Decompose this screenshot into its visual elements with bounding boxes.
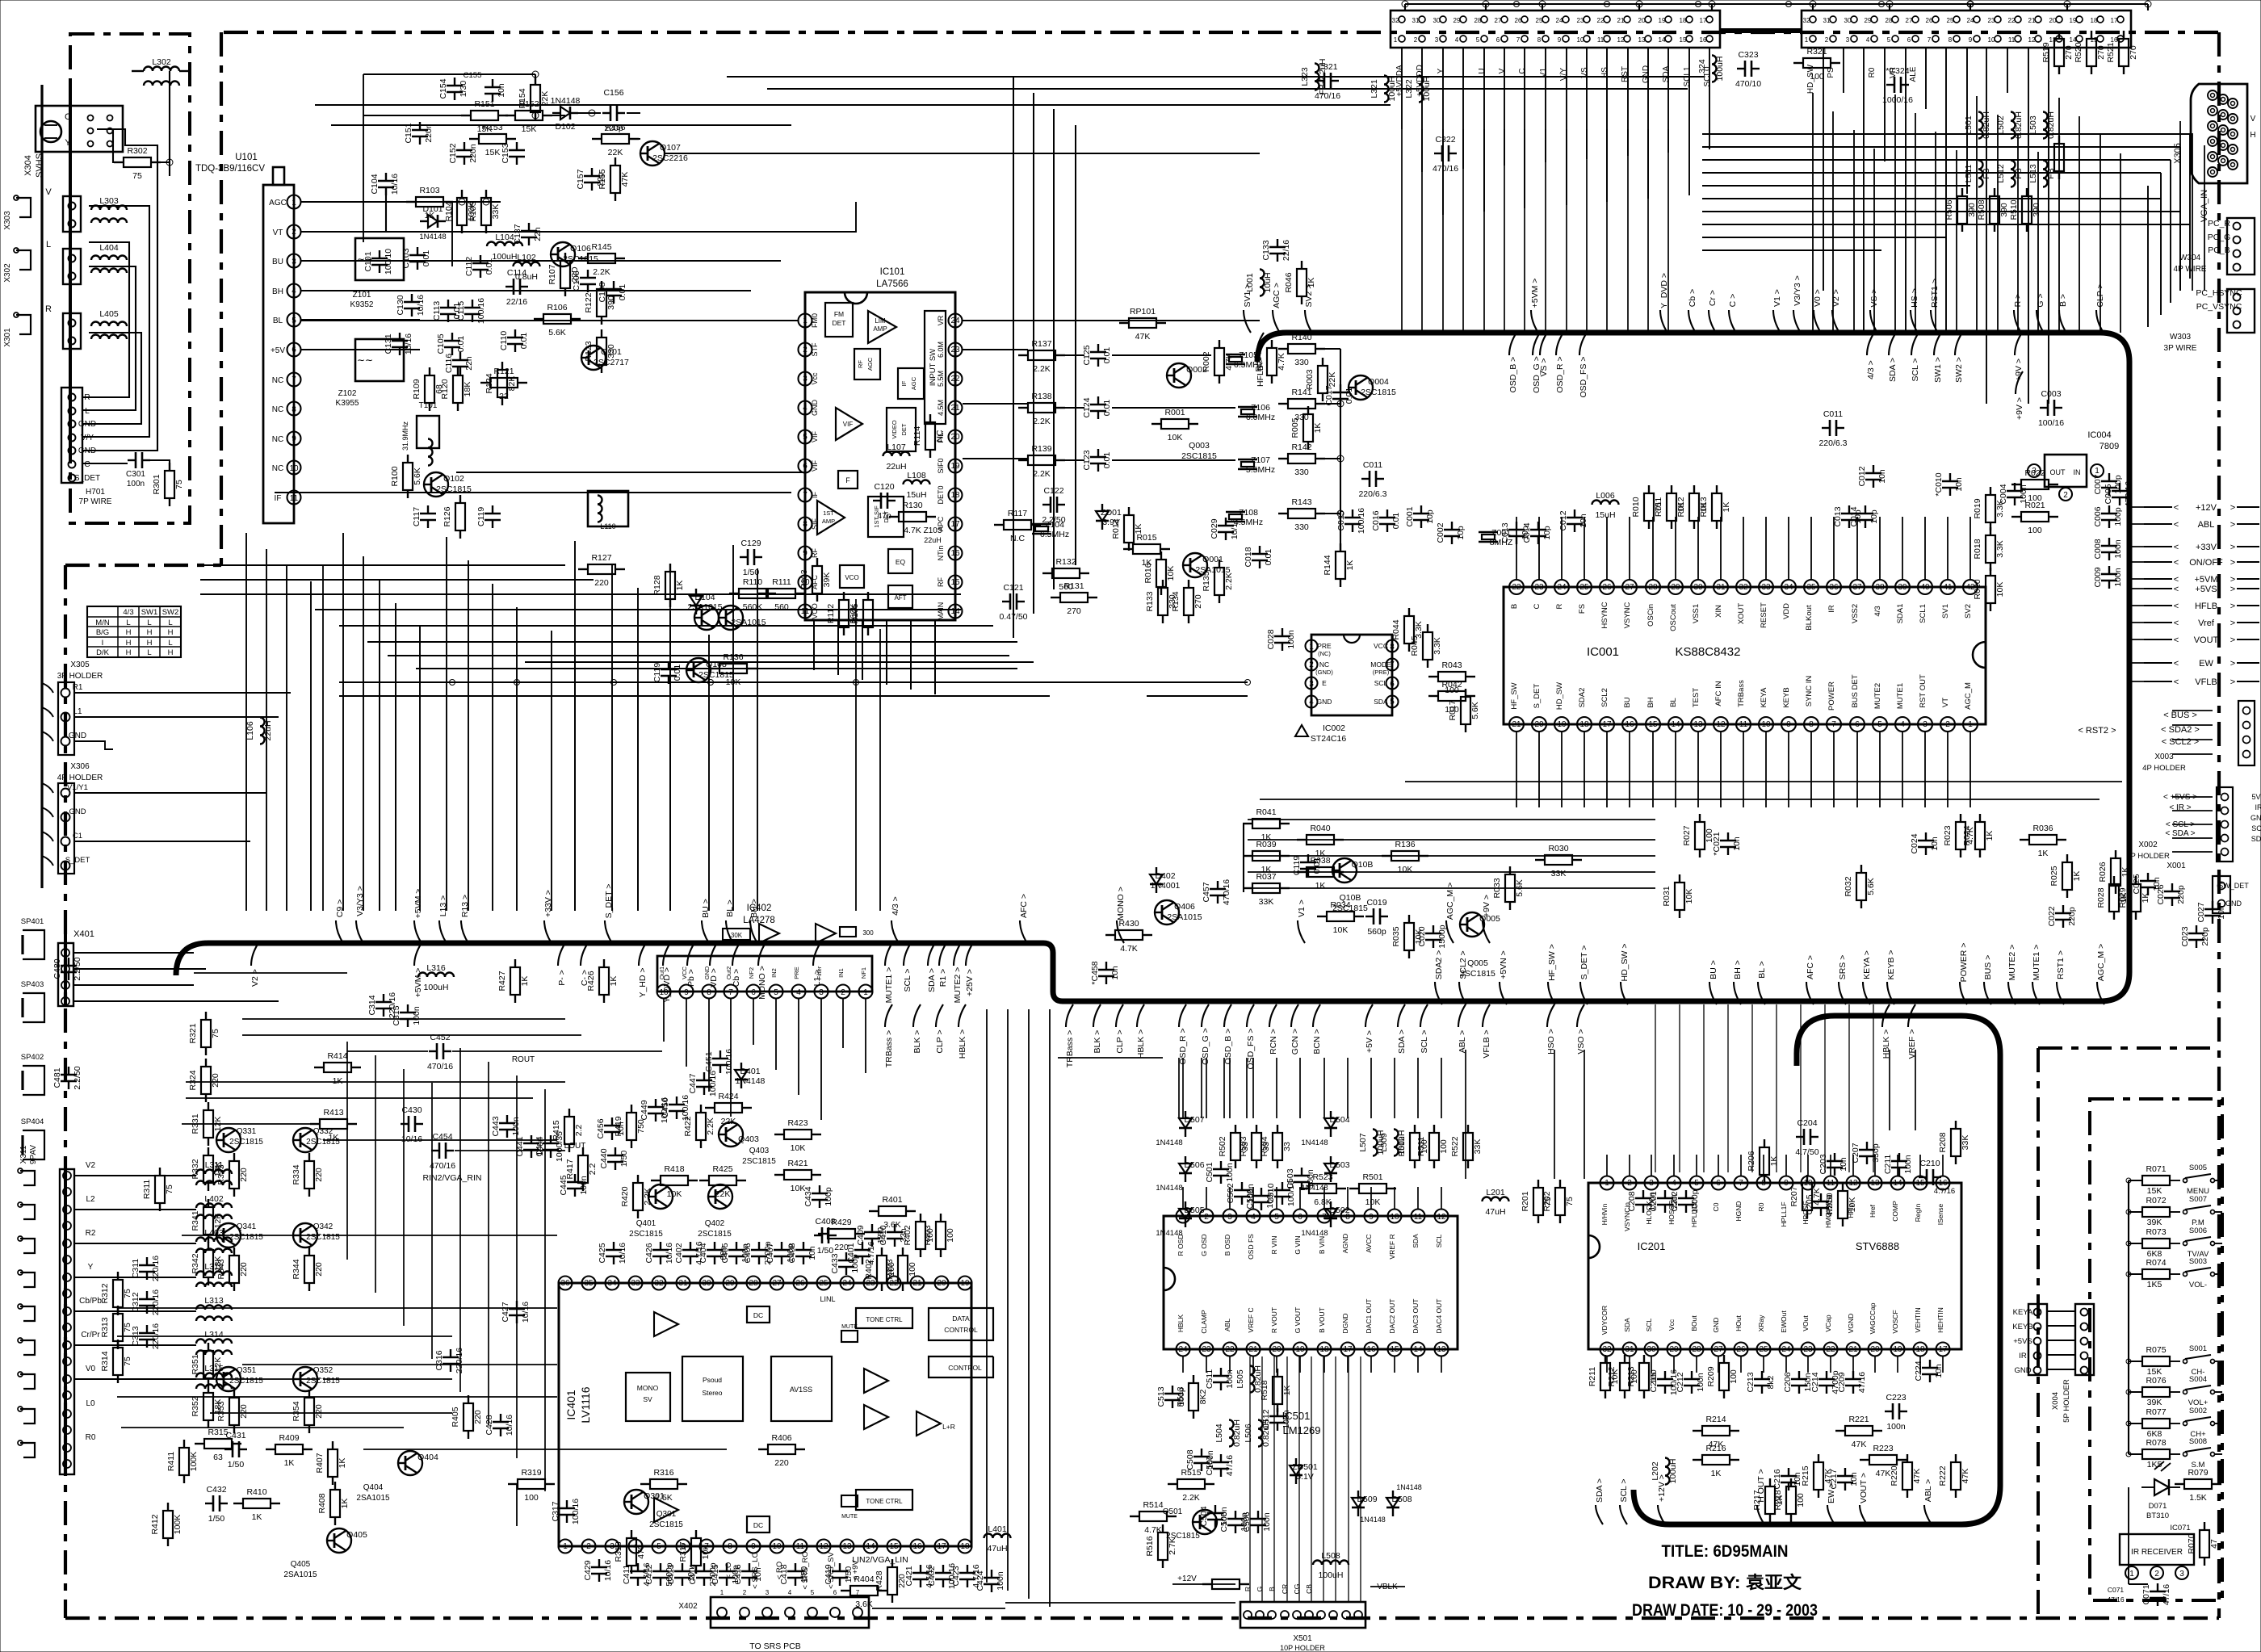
svg-text:C008: C008 [2093,539,2103,559]
svg-text:25: 25 [1536,17,1543,24]
svg-text:17: 17 [950,520,960,529]
svg-text:POWER: POWER [1827,681,1836,711]
svg-text:R156: R156 [605,123,625,132]
svg-text:< SRS_LO: < SRS_LO [751,1552,760,1589]
svg-text:100n: 100n [1886,1422,1906,1432]
svg-text:L302: L302 [152,57,171,67]
svg-text:17: 17 [2111,17,2118,24]
svg-text:HEHTIN: HEHTIN [1936,1307,1944,1333]
svg-text:R042: R042 [1441,680,1462,690]
svg-text:21: 21 [1848,1345,1858,1354]
svg-text:MUTE: MUTE [841,1324,858,1330]
svg-text:100n: 100n [1225,1163,1235,1182]
svg-text:5.6K: 5.6K [1866,878,1876,895]
svg-text:4/3 >: 4/3 > [1866,360,1876,379]
svg-text:8: 8 [728,1542,732,1551]
svg-text:4P HOLDER: 4P HOLDER [57,774,103,782]
svg-text:L+R: L+R [942,1423,955,1431]
svg-text:3P WIRE: 3P WIRE [2164,344,2197,353]
svg-text:47/16: 47/16 [1225,1455,1235,1476]
svg-text:10p: 10p [1456,526,1466,540]
svg-text:2.2K: 2.2K [1182,1493,1200,1503]
svg-text:VFLB >: VFLB > [1482,1029,1491,1058]
svg-text:MUTE2 >: MUTE2 > [2007,945,2017,981]
svg-text:18: 18 [1680,17,1687,24]
svg-text:R136: R136 [1395,840,1415,849]
svg-text:CLP >: CLP > [935,1029,945,1053]
svg-text:H701: H701 [86,488,105,497]
svg-text:7809: 7809 [2099,442,2119,451]
svg-text:RF: RF [857,360,864,368]
svg-text:6.0M: 6.0M [937,342,945,358]
svg-text:6: 6 [1496,36,1500,44]
svg-text:C409: C409 [856,1225,866,1245]
svg-text:OUT: OUT [2050,468,2066,476]
svg-text:16: 16 [912,1542,922,1551]
svg-text:Cb >: Cb > [1688,289,1697,307]
svg-text:2SA1015: 2SA1015 [1167,912,1202,922]
svg-text:22K: 22K [608,148,623,157]
svg-text:C020: C020 [1417,926,1427,946]
svg-text:32: 32 [1739,583,1748,592]
svg-text:31: 31 [678,1279,688,1288]
svg-text:< RO: < RO [775,1562,784,1579]
svg-text:15: 15 [1680,36,1687,44]
svg-text:L: L [126,618,130,627]
svg-text:0.82uH: 0.82uH [1261,1419,1271,1447]
svg-text:KEYA: KEYA [2013,1308,2033,1317]
svg-text:21: 21 [1248,1345,1258,1354]
svg-text:C212: C212 [1676,1372,1685,1392]
svg-text:2: 2 [1414,36,1418,44]
svg-text:C024: C024 [1910,833,1919,853]
svg-text:1.5K: 1.5K [2189,1493,2207,1503]
svg-text:1N4148: 1N4148 [1396,1483,1422,1491]
svg-text:DRAW DATE: 10 - 29 - 2003: DRAW DATE: 10 - 29 - 2003 [1632,1601,1818,1620]
svg-text:5: 5 [774,988,778,997]
svg-text:220: 220 [239,1168,249,1182]
svg-text:5: 5 [656,1542,661,1551]
svg-text:3: 3 [292,258,296,266]
svg-text:27: 27 [1495,17,1502,24]
svg-text:30: 30 [1646,1345,1656,1354]
svg-text:RST OUT: RST OUT [1919,674,1928,708]
svg-text:4: 4 [796,988,801,997]
svg-text:TRBass: TRBass [1737,680,1746,707]
svg-text:VT: VT [273,229,283,237]
svg-text:42: 42 [1965,583,1975,592]
svg-text:10n: 10n [1954,477,1964,492]
svg-text:IC001: IC001 [1587,645,1619,659]
svg-text:V1 >: V1 > [1297,899,1307,917]
svg-text:DRAW BY: 袁亚文: DRAW BY: 袁亚文 [1648,1573,1802,1592]
svg-text:6.8K: 6.8K [1314,1197,1332,1207]
svg-text:C119: C119 [652,663,662,682]
svg-text:75: 75 [211,1029,220,1038]
svg-text:35: 35 [584,1279,594,1288]
svg-text:1N4148: 1N4148 [1301,1138,1328,1147]
svg-text:10: 10 [1577,36,1584,44]
svg-text:AMP: AMP [822,518,835,525]
svg-text:23: 23 [1202,1345,1211,1354]
svg-text:C208: C208 [1627,1191,1637,1211]
svg-text:VOL-: VOL- [2189,1281,2207,1289]
svg-text:SDA: SDA [2251,835,2261,843]
svg-text:SCL: SCL [1645,1318,1653,1331]
svg-text:1: 1 [1309,643,1314,652]
svg-text:13: 13 [1437,1345,1446,1354]
svg-text:C: C [1533,603,1542,609]
svg-text:R354: R354 [292,1401,301,1421]
svg-text:KS88C8432: KS88C8432 [1676,645,1741,659]
svg-text:Q401: Q401 [636,1219,656,1228]
svg-text:10K: 10K [1398,865,1413,874]
svg-text:C323: C323 [1738,50,1758,60]
svg-text:27: 27 [1625,583,1634,592]
svg-text:L: L [147,618,151,627]
svg-text:4.7K: 4.7K [904,526,921,535]
svg-text:R140: R140 [1291,333,1311,342]
svg-text:MUTE2: MUTE2 [1873,683,1882,709]
svg-text:SW1 >: SW1 > [1933,357,1943,383]
svg-text:VDYCOR: VDYCOR [1600,1306,1609,1335]
svg-text:1K: 1K [329,1133,339,1143]
svg-text:ABL: ABL [2198,520,2215,530]
svg-text:7: 7 [292,375,296,384]
svg-text:C427: C427 [501,1302,510,1322]
svg-text:IC201: IC201 [1638,1240,1666,1252]
svg-text:24: 24 [1556,17,1563,24]
svg-text:C131: C131 [384,333,393,354]
svg-text:Cb/Pb: Cb/Pb [79,1297,102,1306]
svg-text:PRE: PRE [793,966,800,979]
svg-text:100/16: 100/16 [571,1499,581,1524]
svg-text:9: 9 [1369,1213,1374,1222]
svg-text:R520: R520 [2074,42,2083,62]
svg-text:DET0: DET0 [937,485,945,504]
svg-text:TO SRS PCB: TO SRS PCB [749,1642,800,1651]
svg-text:R423: R423 [787,1118,807,1128]
svg-text:OSD_G >: OSD_G > [1532,356,1542,393]
svg-text:R422: R422 [683,1116,693,1136]
svg-text:IR: IR [1827,605,1836,613]
svg-text:1K: 1K [2072,871,2082,882]
svg-text:11: 11 [801,607,810,616]
svg-text:*C021: *C021 [1712,832,1722,855]
svg-text:C315: C315 [392,1005,401,1025]
svg-text:C: C [1518,68,1527,73]
svg-text:C151: C151 [404,123,413,143]
svg-text:1: 1 [1605,1179,1609,1188]
svg-text:NC: NC [1319,660,1329,669]
svg-text:100n: 100n [1282,1410,1291,1429]
svg-text:27: 27 [1714,1345,1723,1354]
svg-text:C213: C213 [1746,1372,1756,1392]
svg-text:1ST: 1ST [823,509,834,517]
svg-text:100n: 100n [996,1571,1005,1591]
svg-text:VCap: VCap [1824,1314,1832,1332]
svg-text:2: 2 [841,988,845,997]
svg-text:MONO: MONO [637,1384,659,1392]
svg-text:23: 23 [1534,583,1544,592]
svg-text:C153: C153 [501,143,510,163]
svg-text:VT: VT [1941,698,1950,707]
svg-text:5.5MHz: 5.5MHz [1246,465,1275,475]
svg-text:1K: 1K [520,976,530,987]
svg-text:14: 14 [1893,1179,1902,1188]
svg-text:31.9MHz: 31.9MHz [401,421,409,451]
svg-text:47K: 47K [1876,1469,1891,1478]
svg-text:H: H [2250,131,2255,140]
svg-text:1: 1 [2129,1570,2134,1579]
svg-text:IC004: IC004 [2087,430,2111,440]
svg-text:R301: R301 [152,474,161,494]
svg-text:L: L [168,639,172,648]
svg-text:R412: R412 [150,1514,160,1534]
svg-text:1: 1 [2095,467,2099,476]
svg-text:100: 100 [1810,72,1824,82]
svg-text:39: 39 [1898,583,1907,592]
svg-text:R311: R311 [142,1180,152,1199]
svg-text:3: 3 [803,375,807,384]
svg-text:BLK >: BLK > [912,1030,922,1054]
svg-text:4: 4 [788,1589,792,1596]
svg-text:AFC >: AFC > [1806,955,1815,979]
svg-text:0.01: 0.01 [1264,549,1273,566]
svg-text:L312: L312 [204,1262,224,1272]
svg-text:5: 5 [1274,1213,1279,1222]
svg-text:R409: R409 [279,1433,299,1443]
svg-text:75: 75 [1565,1197,1575,1206]
svg-text:DC: DC [753,1311,763,1319]
svg-text:L110: L110 [600,522,615,530]
svg-text:8: 8 [1390,643,1395,652]
svg-text:R221: R221 [1848,1415,1869,1424]
svg-text:RCN >: RCN > [1269,1029,1278,1055]
svg-text:6: 6 [292,346,296,354]
svg-text:7: 7 [704,1542,709,1551]
svg-text:220/6.3: 220/6.3 [1818,438,1847,448]
svg-text:< RST2 >: < RST2 > [2078,726,2116,736]
svg-text:100p: 100p [2113,507,2123,526]
svg-text:3: 3 [1227,1213,1232,1222]
svg-text:NC: NC [272,405,283,414]
svg-text:NC: NC [272,464,283,473]
svg-text:C450: C450 [661,1097,670,1117]
svg-text:>: > [2230,602,2235,611]
svg-text:VCC: VCC [681,966,688,979]
svg-text:Q004: Q004 [1368,377,1389,387]
svg-text:4P HOLDER: 4P HOLDER [2142,764,2186,773]
svg-text:4.5M: 4.5M [937,400,945,416]
svg-text:Z102: Z102 [338,389,357,398]
svg-text:C101: C101 [363,251,373,271]
svg-text:MUTE1: MUTE1 [1896,683,1905,709]
svg-text:C002: C002 [1436,522,1445,543]
svg-text:AFT: AFT [894,594,906,602]
svg-text:L316: L316 [426,963,446,973]
svg-text:9: 9 [803,549,807,558]
svg-text:220: 220 [314,1168,324,1182]
svg-text:R0: R0 [1868,67,1877,78]
svg-text:IC401: IC401 [564,1390,577,1420]
svg-text:47uH: 47uH [987,1544,1007,1553]
svg-text:R421: R421 [787,1159,807,1168]
svg-text:10n: 10n [1839,1157,1848,1172]
svg-text:19: 19 [950,462,960,471]
svg-text:14: 14 [1671,720,1680,729]
svg-text:S008: S008 [2189,1437,2207,1446]
svg-text:19: 19 [1659,17,1666,24]
svg-text:R405: R405 [451,1407,460,1427]
svg-text:C108: C108 [598,282,607,302]
svg-text:16: 16 [1366,1345,1376,1354]
svg-text:100: 100 [2028,526,2042,535]
svg-text:25: 25 [1947,17,1954,24]
svg-text:9: 9 [684,988,689,997]
svg-text:C133: C133 [1261,240,1271,260]
svg-text:Vcc: Vcc [811,372,819,385]
svg-text:GND: GND [703,966,711,979]
svg-text:<: < [2174,585,2179,594]
svg-text:7: 7 [728,988,733,997]
svg-text:100n: 100n [1262,1512,1272,1532]
svg-text:SCL >: SCL > [1420,1029,1429,1053]
svg-text:RegIn: RegIn [1914,1203,1922,1222]
svg-text:AV1SS: AV1SS [790,1386,812,1394]
svg-text:0.01: 0.01 [456,336,466,353]
svg-text:C204: C204 [1797,1118,1817,1128]
svg-text:ZD501: ZD501 [1292,1462,1318,1472]
svg-text:270: 270 [1193,594,1203,609]
svg-text:SDA: SDA [1662,65,1671,82]
svg-text:R502: R502 [1218,1136,1227,1156]
svg-text:R100: R100 [390,466,400,486]
svg-text:10n: 10n [497,83,506,98]
svg-text:VGND: VGND [1847,1314,1855,1334]
svg-text:R122: R122 [584,292,594,312]
svg-text:1K: 1K [1985,831,1995,841]
svg-text:BL: BL [273,317,283,325]
svg-text:10: 10 [1390,1213,1399,1222]
svg-text:1: 1 [803,317,807,325]
svg-text:EWOut: EWOut [1780,1310,1788,1333]
svg-text:R: R [45,304,52,314]
svg-text:330: 330 [1294,358,1309,367]
svg-text:100K: 100K [173,1515,182,1535]
svg-text:24: 24 [950,317,960,325]
svg-text:1: 1 [1805,36,1809,44]
svg-text:R401: R401 [882,1195,902,1205]
svg-text:10/16: 10/16 [618,1243,627,1264]
svg-text:31: 31 [1716,583,1726,592]
svg-text:L503: L503 [2028,115,2038,135]
svg-text:31: 31 [1412,17,1420,24]
svg-text:R026: R026 [2098,862,2108,882]
svg-text:Q301: Q301 [656,1510,677,1519]
svg-text:C: C [65,112,71,122]
svg-text:CONTROL: CONTROL [944,1326,978,1334]
svg-text:STV6888: STV6888 [1856,1240,1899,1252]
svg-text:R424: R424 [718,1092,738,1101]
svg-text:1K: 1K [2141,893,2150,904]
svg-text:47/16: 47/16 [1857,1372,1867,1393]
svg-text:32: 32 [654,1279,664,1288]
svg-text:2SC1815: 2SC1815 [229,1377,263,1386]
svg-text:R523: R523 [1312,1172,1332,1182]
svg-text:18: 18 [2091,17,2098,24]
svg-text:VREF R: VREF R [1388,1234,1396,1259]
svg-text:Href: Href [1869,1204,1877,1218]
svg-text:R VOUT: R VOUT [1270,1307,1278,1333]
svg-text:100/10: 100/10 [384,249,393,275]
svg-text:C412: C412 [644,1564,654,1584]
svg-text:INPUT SW: INPUT SW [929,349,938,386]
svg-text:Z106: Z106 [1251,403,1270,413]
svg-text:C224: C224 [1914,1361,1923,1381]
svg-text:SW1: SW1 [141,608,158,617]
svg-text:R010: R010 [1631,497,1641,517]
svg-text:HOut: HOut [1735,1314,1743,1331]
svg-text:C443: C443 [491,1116,501,1136]
svg-text:LIN2/VGA_LIN: LIN2/VGA_LIN [852,1555,908,1565]
svg-text:470/16: 470/16 [427,1062,453,1071]
svg-text:W303: W303 [2170,333,2192,342]
svg-text:390: 390 [2032,203,2041,217]
svg-text:R017: R017 [1448,700,1458,720]
svg-text:R117: R117 [1008,509,1027,518]
svg-text:3: 3 [819,988,824,997]
svg-text:330p: 330p [1871,1143,1881,1163]
svg-text:4/3 >: 4/3 > [891,896,900,916]
svg-text:100n: 100n [2113,568,2123,587]
svg-text:3.3K: 3.3K [1995,540,2005,558]
svg-text:+5V: +5V [271,346,285,355]
svg-text:V1 >: V1 > [1772,289,1782,307]
svg-text:47K: 47K [1852,1440,1867,1449]
svg-text:SCL >: SCL > [1619,1478,1629,1502]
svg-text:< SDA >: < SDA > [2165,829,2195,838]
svg-text:330: 330 [1294,522,1309,532]
svg-text:ST24C16: ST24C16 [1311,734,1347,744]
svg-text:R504: R504 [1260,1136,1269,1156]
svg-text:V: V [45,187,52,197]
svg-text:HD_SW: HD_SW [1555,682,1564,710]
svg-text:10/16: 10/16 [505,1415,514,1436]
svg-text:C027: C027 [2196,902,2206,922]
svg-text:C003: C003 [2041,389,2061,399]
svg-text:>: > [2230,585,2235,594]
svg-text:R OSD: R OSD [1177,1235,1185,1256]
svg-text:R503: R503 [1239,1136,1248,1156]
svg-text:R201: R201 [1521,1191,1530,1211]
svg-text:R126: R126 [443,506,452,526]
svg-text:V2: V2 [86,1161,96,1170]
svg-text:X501: X501 [1293,1634,1312,1643]
svg-text:C215: C215 [1649,1372,1659,1392]
svg-text:<: < [2174,558,2179,568]
svg-text:47/16: 47/16 [2107,1595,2125,1604]
svg-text:C009: C009 [2093,567,2103,587]
svg-text:26: 26 [1515,17,1522,24]
svg-text:H: H [147,639,153,648]
svg-text:>: > [2230,575,2235,585]
svg-text:R016: R016 [1143,563,1153,583]
svg-text:C216: C216 [1772,1469,1782,1489]
svg-text:33K: 33K [1551,869,1567,878]
svg-text:EQ: EQ [896,558,906,566]
svg-text:SP404: SP404 [21,1117,44,1126]
